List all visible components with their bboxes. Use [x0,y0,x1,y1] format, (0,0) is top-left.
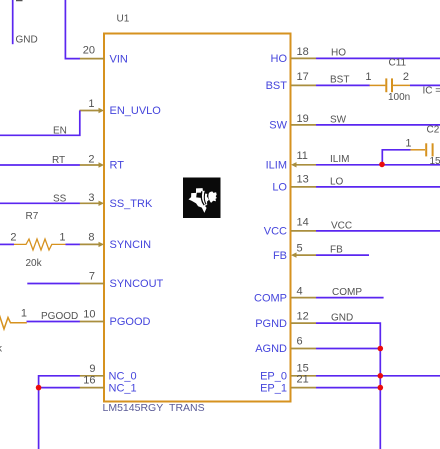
resistor R7 [14,239,66,250]
svg-text:11: 11 [297,150,308,162]
svg-text:BST: BST [266,80,288,92]
svg-text:21: 21 [297,374,309,386]
svg-text:17: 17 [297,71,309,83]
svg-text:1: 1 [21,308,27,320]
svg-text:EP_1: EP_1 [260,382,287,394]
svg-text:SW: SW [330,114,347,125]
wire net FB [316,254,369,256]
wire SYNCOUT [27,283,80,285]
svg-text:6: 6 [297,336,303,348]
pin 5 arrow [291,252,297,257]
svg-text:SYNCIN: SYNCIN [110,239,152,251]
capacitor C2 partial [410,143,432,156]
junction EP_1 [378,385,384,391]
svg-text:3: 3 [88,192,94,204]
junction ILIM [379,162,385,168]
svg-text:10: 10 [83,309,95,321]
pin 21 stub [291,387,316,389]
IC U1 body [104,34,291,402]
pin 5 stub [296,254,316,256]
pin 15 stub [291,375,316,377]
wire R7 to pin 8 [66,243,80,245]
wire net GND right [316,323,380,449]
svg-text:HO: HO [271,53,288,65]
wire net GND top left [12,0,14,44]
svg-text:13: 13 [297,174,309,186]
svg-text:COMP: COMP [254,292,287,304]
pin 18 stub [291,57,316,59]
svg-text:EN_UVLO: EN_UVLO [110,105,162,117]
junction NC [36,385,42,391]
pin 19 stub [291,124,316,126]
wire to pin 20 from top [65,0,80,59]
svg-text:VCC: VCC [331,220,352,231]
wire EP_0 [316,375,440,377]
svg-text:RT: RT [52,155,65,166]
svg-text:SS_TRK: SS_TRK [110,198,153,210]
svg-text:100n: 100n [388,92,410,103]
junction EP_0 [378,373,384,379]
wire AGND [316,348,380,350]
svg-text:5: 5 [297,243,303,255]
pin 12 stub [291,322,316,324]
svg-text:PGOOD: PGOOD [41,311,78,322]
resistor partial left edge [0,317,27,329]
svg-text:7: 7 [89,271,95,283]
wire net EN [0,111,80,136]
pin 8 arrow [99,242,105,247]
pin 10 stub [80,321,105,323]
svg-text:FB: FB [330,245,343,256]
svg-text:HO: HO [331,47,346,58]
pin 3 stub [80,202,101,204]
svg-text:4: 4 [297,286,303,298]
svg-text:2: 2 [403,71,409,83]
pin 8 stub [80,243,101,245]
wire BST to C11 [316,84,370,86]
pin 2 arrow [99,162,105,167]
svg-text:NC_1: NC_1 [109,382,137,394]
pin 11 stub [296,164,316,166]
component edge top [16,0,23,2]
svg-text:20k: 20k [26,258,43,269]
svg-text:18: 18 [297,46,309,58]
pin 4 stub [291,297,316,299]
wire SS_TRK left [0,243,14,245]
pin 17 stub [291,84,316,86]
svg-text:2: 2 [10,232,16,244]
svg-text:VCC: VCC [264,226,287,238]
wire net HO [316,57,440,59]
svg-text:LO: LO [330,176,344,187]
pin 14 stub [291,230,316,232]
pin 9 stub [80,375,105,377]
pin 6 stub [291,348,316,350]
svg-text:12: 12 [297,311,309,323]
wire net PGOOD [27,321,80,323]
pin 7 stub [80,283,105,285]
wire ILIM to C2 [382,150,410,165]
svg-text:LM5145RGY TRANS: LM5145RGY TRANS [103,402,205,414]
svg-text:EP_0: EP_0 [260,371,287,383]
svg-text:RT: RT [110,160,125,172]
svg-text:8: 8 [88,232,94,244]
svg-text:EN: EN [53,125,67,136]
svg-text:FB: FB [273,250,287,262]
svg-text:R7: R7 [26,211,39,222]
capacitor C11 [370,78,411,92]
wire net VCC [316,230,440,232]
svg-text:LO: LO [272,182,287,194]
pin 1 arrow [99,108,105,113]
svg-text:2: 2 [88,154,94,166]
wire NC_0 [39,376,80,449]
svg-text:VIN: VIN [110,53,128,65]
svg-text:SS: SS [53,193,67,204]
svg-text:BST: BST [330,74,349,85]
svg-text:SW: SW [269,120,287,132]
svg-text:GND: GND [16,35,38,46]
TI logo black square [183,178,221,219]
pin 2 stub [80,164,101,166]
svg-text:COMP: COMP [332,287,362,298]
pin 20 stub [80,58,105,60]
wire net ILIM [316,164,440,166]
svg-text:1: 1 [88,98,94,110]
wire NC_1 [39,387,80,389]
svg-text:IC =: IC = [423,86,440,97]
svg-text:20: 20 [83,45,95,57]
pin 1 stub [80,110,101,112]
svg-text:AGND: AGND [255,343,287,355]
svg-text:1: 1 [365,71,371,83]
svg-text:PGOOD: PGOOD [110,316,151,328]
svg-text:PGND: PGND [255,318,287,330]
wire net RT [0,164,80,166]
wire EP_1 [316,387,380,389]
junction AGND [378,346,384,352]
svg-text:ILIM: ILIM [330,154,349,165]
svg-text:GND: GND [331,313,353,324]
wire net LO [316,186,440,188]
svg-text:15: 15 [430,156,440,167]
svg-text:14: 14 [297,217,309,229]
svg-text:SYNCOUT: SYNCOUT [110,278,164,290]
pin 11 arrow [291,162,297,167]
wire net SW [316,124,440,126]
wire net COMP [316,297,384,299]
svg-text:C11: C11 [389,58,407,69]
wire net SS [0,202,80,204]
svg-text:NC_0: NC_0 [109,371,137,383]
wire C11 right [410,84,440,86]
svg-text:ILIM: ILIM [266,160,287,172]
svg-text:1: 1 [59,232,65,244]
svg-text:9: 9 [89,363,95,375]
pin 16 stub [80,387,105,389]
svg-text:C2: C2 [427,125,440,136]
svg-text:U1: U1 [117,14,130,25]
pin 3 arrow [99,201,105,206]
svg-text:16: 16 [83,375,95,387]
pin 13 stub [291,186,316,188]
svg-text:1: 1 [405,138,411,150]
svg-text:19: 19 [297,113,309,125]
